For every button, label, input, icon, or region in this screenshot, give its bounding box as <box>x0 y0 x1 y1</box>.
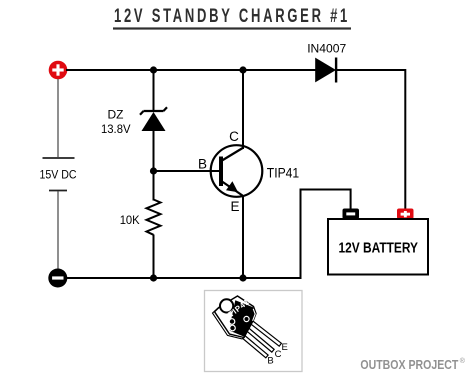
battery BT1 12V <box>328 209 428 275</box>
diode D1 IN4007 <box>307 42 346 83</box>
svg-text:B: B <box>198 157 207 172</box>
package leg E <box>247 318 282 346</box>
transistor emitter arrow <box>226 181 238 192</box>
wire base node down to resistor <box>153 171 155 201</box>
battery plate negative <box>49 190 67 192</box>
transistor base bar <box>219 157 223 187</box>
svg-text:E: E <box>282 342 288 353</box>
wire emitter down to bottom rail <box>242 195 244 278</box>
TO-220 package TIP41 drawing <box>213 296 288 367</box>
battery negative terminal <box>343 209 360 220</box>
svg-text:OUTBOX PROJECT: OUTBOX PROJECT <box>360 358 458 372</box>
resistor zigzag <box>147 200 161 235</box>
watermark OUTBOX PROJECT <box>360 357 465 372</box>
battery case <box>328 219 428 275</box>
transistor Q1 TIP41 <box>198 129 299 214</box>
transistor emitter stroke <box>222 182 243 196</box>
wire base node to transistor base <box>154 170 220 172</box>
node base junction <box>150 167 157 174</box>
wire bottom rail <box>66 277 301 279</box>
title 12V STANDBY CHARGER #1 <box>113 6 351 30</box>
svg-text:13.8V: 13.8V <box>101 122 131 136</box>
diode cathode bar <box>335 58 337 83</box>
package body circle mark <box>244 316 249 321</box>
battery B1 15V DC <box>40 158 77 191</box>
svg-text:TIP41: TIP41 <box>267 166 299 181</box>
node collector top <box>239 66 246 73</box>
zener anode triangle <box>142 112 166 131</box>
package mold marks <box>229 319 235 325</box>
transistor collector stroke <box>222 148 244 161</box>
package plastic body <box>230 300 256 337</box>
wire battery bottom plate to negative terminal <box>57 191 59 269</box>
svg-text:C: C <box>275 349 282 360</box>
svg-text:E: E <box>230 199 239 214</box>
package body edge highlight <box>253 309 256 321</box>
battery positive terminal <box>397 209 414 220</box>
transistor circle <box>211 145 263 197</box>
svg-text:12V BATTERY: 12V BATTERY <box>339 240 419 256</box>
zener diode DZ 13.8V <box>101 107 167 136</box>
node zener top <box>150 66 157 73</box>
wire top rail right of diode, down to battery positive <box>337 70 406 209</box>
svg-text:IN4007: IN4007 <box>307 42 346 56</box>
wire collector up to top rail <box>242 70 244 149</box>
wire resistor to bottom rail <box>153 235 155 279</box>
svg-text:®: ® <box>460 357 466 365</box>
svg-text:10K: 10K <box>120 213 140 227</box>
positive supply terminal <box>49 61 68 80</box>
svg-text:C: C <box>229 129 239 144</box>
TO-220 package illustration box <box>205 291 303 372</box>
node resistor bottom <box>150 274 157 281</box>
package tab hole <box>220 299 233 312</box>
svg-text:15V DC: 15V DC <box>40 167 77 181</box>
package leg C <box>242 325 274 353</box>
package silhouette (metal tab) <box>215 296 257 338</box>
battery plate positive <box>43 157 75 159</box>
package leg B <box>238 332 268 358</box>
wire zener to base node <box>153 131 155 171</box>
resistor R1 10K <box>120 200 161 235</box>
svg-text:B: B <box>267 356 273 367</box>
diode anode triangle <box>315 58 336 83</box>
wire bottom rail up and over to battery negative <box>301 190 351 280</box>
zener cathode bar <box>140 107 167 115</box>
wire zener branch upper <box>153 70 155 110</box>
svg-text:12V STANDBY CHARGER #1: 12V STANDBY CHARGER #1 <box>114 6 350 27</box>
node emitter bottom <box>239 274 246 281</box>
svg-text:DZ: DZ <box>108 108 124 122</box>
wire positive terminal to battery top plate <box>57 79 59 157</box>
negative supply terminal <box>48 269 67 288</box>
package tab thickness facet <box>213 307 245 339</box>
wire top rail <box>66 69 316 71</box>
